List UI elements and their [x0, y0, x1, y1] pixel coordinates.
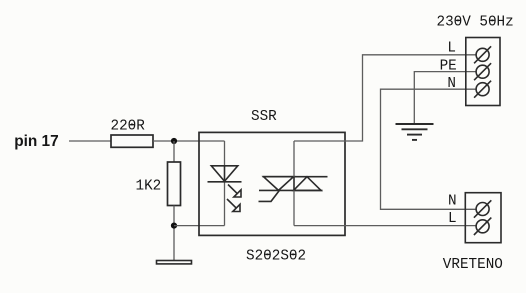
terminal X1-L [474, 46, 491, 63]
svg-text:SSR: SSR [251, 109, 277, 125]
wire LED cathode lead [224, 182, 226, 226]
wire pin17 to R1 [69, 140, 111, 142]
value label 220R [111, 119, 146, 135]
svg-text:S202S02: S202S02 [246, 248, 306, 264]
terminal X1-N [474, 81, 491, 98]
wire triac MT2 lead [293, 141, 295, 177]
LED D1 [208, 166, 242, 212]
wire triac MT1 lead [293, 190, 295, 225]
svg-text:N: N [447, 76, 456, 92]
svg-text:N: N [448, 193, 457, 209]
resistor R2 1K2 [168, 162, 181, 206]
wire triac to L terminal [294, 55, 476, 141]
node A junction dot [171, 138, 177, 144]
svg-text:L: L [447, 41, 456, 57]
svg-text:1K2: 1K2 [136, 178, 162, 194]
wire node A down to R2 [173, 141, 175, 162]
wire triac to spindle L [294, 225, 476, 227]
svg-text:L: L [448, 211, 457, 227]
triac T1 [259, 177, 328, 202]
terminal X2-N [474, 200, 491, 217]
svg-text:230V 50Hz: 230V 50Hz [437, 14, 514, 30]
label 230V 50Hz [437, 14, 514, 30]
op-coupler box SSR [199, 132, 345, 235]
wire R1 to node A and into SSR [153, 140, 225, 142]
ground GND [157, 261, 192, 264]
wire R2 to node B and ground [173, 206, 175, 261]
wire LED anode drop [224, 141, 226, 166]
label S202S02 [246, 248, 306, 264]
terminal block X1 mains [466, 38, 500, 106]
wire node B to LED cathode [174, 225, 225, 227]
terminal X1-PE [474, 63, 491, 80]
svg-text:220R: 220R [111, 119, 146, 135]
wire N to spindle N [381, 89, 477, 209]
terminal X2-L [474, 218, 491, 235]
wire PE to earth [414, 72, 476, 124]
resistor R1 220R [111, 135, 153, 147]
svg-text:PE: PE [440, 58, 457, 74]
node B junction dot [171, 223, 177, 229]
terminal block X2 spindle [465, 193, 501, 243]
svg-text:VRETENO: VRETENO [443, 257, 503, 273]
earth ground symbol [396, 124, 434, 140]
svg-text:pin 17: pin 17 [14, 133, 58, 150]
